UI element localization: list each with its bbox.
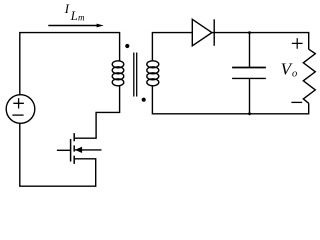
svg-text:L: L [70, 9, 78, 23]
transformer secondary winding bottom lead + bottom rail (secondary side) [152, 85, 308, 114]
svg-text:I: I [64, 2, 70, 16]
transformer primary winding loops [112, 61, 124, 68]
+ output polarity mark [292, 38, 303, 49]
transistor Q1 gate lead [57, 149, 71, 151]
transistor Q1 channel bars [73, 133, 75, 164]
svg-text:o: o [292, 68, 297, 79]
wire: left vertical, source bottom + bottom rail (primary side) [20, 123, 96, 186]
capacitor C1 top stem [249, 33, 251, 67]
capacitor C1 bottom stem [249, 79, 251, 114]
transistor Q1 body arrow [75, 147, 82, 153]
current arrow I_Lm [48, 25, 97, 27]
transistor Q1 drain lead + jog up to primary winding bottom [74, 85, 119, 138]
transformer secondary winding top lead [152, 33, 192, 62]
transistor Q1 body line [75, 149, 102, 151]
- output polarity mark [291, 101, 302, 103]
resistor R load zigzag [303, 49, 315, 103]
voltage source Vs (circle) [6, 95, 35, 124]
+ polarity mark of source [13, 98, 24, 108]
junction at capacitor top [248, 31, 251, 34]
transformer secondary winding loops [147, 61, 159, 68]
capacitor C1 top plate [232, 67, 266, 69]
transformer core [134, 53, 137, 97]
transformer secondary phasing dot [142, 98, 146, 102]
wire: top-left horizontal (source top to primary top) [20, 33, 120, 95]
junction at capacitor bottom [248, 112, 251, 115]
transistor Q1 gate plate [70, 139, 72, 162]
diode D1 triangle [192, 19, 212, 46]
wire: diode cathode to output top corner [212, 33, 309, 50]
- polarity mark of source [12, 114, 23, 116]
capacitor C1 bottom plate [232, 77, 266, 79]
transformer primary phasing dot [125, 44, 129, 48]
diode D1 cathode bar [213, 19, 215, 46]
svg-text:m: m [78, 12, 85, 22]
